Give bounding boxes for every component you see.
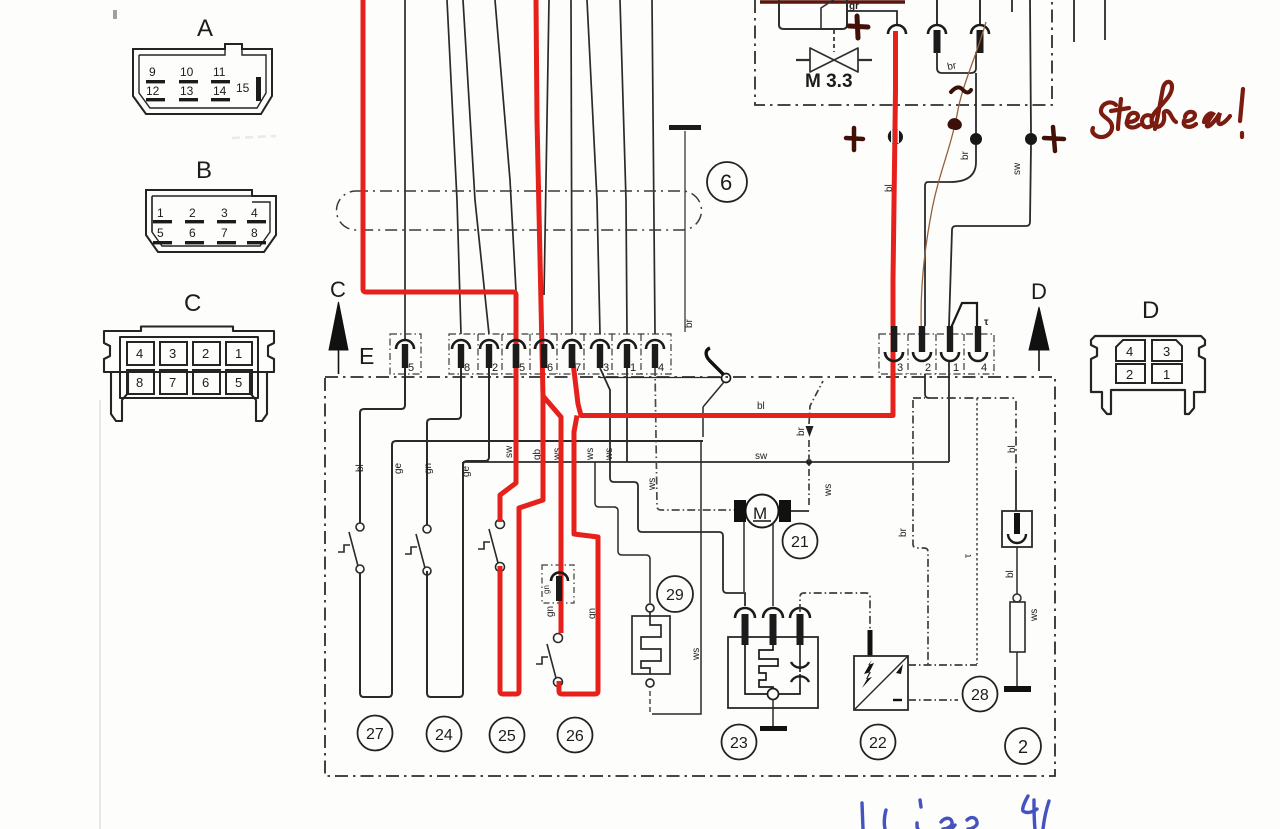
svg-text:br: br bbox=[898, 527, 909, 537]
component 26 dash box bbox=[542, 565, 574, 603]
junction dot br bbox=[970, 133, 982, 145]
svg-text:B: B bbox=[196, 157, 212, 184]
hand cross mark + (left of red dot) bbox=[846, 128, 863, 150]
svg-text:25: 25 bbox=[498, 728, 516, 745]
svg-text:26: 26 bbox=[566, 728, 584, 745]
svg-text:13: 13 bbox=[180, 84, 194, 98]
svg-text:5: 5 bbox=[157, 226, 164, 240]
pin D3 bbox=[885, 352, 903, 361]
svg-text:5: 5 bbox=[519, 362, 525, 374]
arrow C (to connector C) bbox=[329, 277, 348, 374]
svg-text:2: 2 bbox=[492, 362, 498, 374]
wire gr from relay to connector bbox=[847, 11, 897, 25]
dash-dot net NE of unit 22 bbox=[908, 398, 977, 700]
wire joining red at pin E5 column bbox=[495, 0, 516, 291]
wire sw from junction down-left to pin 1 of D-row bbox=[949, 145, 1031, 326]
switch 26 bbox=[536, 634, 563, 687]
hand cross mark + (right of sw dot) bbox=[1044, 127, 1064, 151]
svg-text:14: 14 bbox=[213, 84, 227, 98]
handwriting Stecker! bbox=[1092, 82, 1243, 137]
svg-text:gr: gr bbox=[849, 1, 859, 12]
numbered circles bbox=[358, 524, 1042, 765]
svg-text:ge: ge bbox=[393, 462, 404, 474]
svg-text:bl: bl bbox=[1005, 570, 1016, 578]
relay M3.3 bbox=[779, 0, 847, 29]
arrow on riser bbox=[806, 426, 814, 437]
svg-text:2: 2 bbox=[1018, 737, 1028, 757]
svg-text:5: 5 bbox=[235, 375, 242, 390]
svg-text:1: 1 bbox=[1163, 367, 1170, 382]
svg-text:3: 3 bbox=[1163, 344, 1170, 359]
svg-text:22: 22 bbox=[869, 735, 887, 752]
svg-text:6: 6 bbox=[189, 226, 196, 240]
svg-text:ws: ws bbox=[585, 448, 596, 461]
pin D4 bbox=[969, 352, 987, 361]
svg-text:2: 2 bbox=[1126, 367, 1133, 382]
pin D2 bbox=[913, 352, 931, 361]
svg-text:sw: sw bbox=[1012, 162, 1023, 175]
wire ws from pin E3 to unit 23 bbox=[600, 368, 745, 606]
svg-text:8: 8 bbox=[464, 362, 470, 374]
pin E7 bbox=[563, 340, 581, 349]
wire joining red at pin E6 column bbox=[544, 0, 549, 295]
svg-text:2: 2 bbox=[189, 206, 196, 220]
wire from motor left to unit 23 left pin bbox=[743, 522, 745, 592]
svg-text:1: 1 bbox=[157, 206, 164, 220]
svg-text:bl: bl bbox=[355, 464, 366, 472]
svg-text:10: 10 bbox=[180, 65, 194, 79]
arrow D (to connector D) bbox=[1029, 279, 1049, 371]
connector (red wire) below relay bbox=[888, 25, 906, 34]
unit 23 ground bbox=[772, 699, 774, 727]
pin E1 bbox=[618, 340, 636, 349]
switch 27 bbox=[338, 523, 364, 573]
right assembly connector box bbox=[1002, 511, 1032, 547]
svg-text:τ: τ bbox=[984, 317, 989, 328]
svg-text:τ: τ bbox=[963, 554, 974, 558]
pin E2 bbox=[480, 340, 498, 349]
svg-text:24: 24 bbox=[435, 727, 453, 744]
wire from toggle down to ws vertical bbox=[652, 407, 703, 714]
top right wire stubs bbox=[1012, 0, 1105, 42]
svg-text:bl: bl bbox=[1007, 445, 1018, 453]
svg-text:M: M bbox=[753, 504, 767, 523]
C pin 3 bbox=[160, 342, 187, 365]
E-row group dash box bbox=[449, 334, 671, 374]
wire bl circuit 27 left leg bbox=[360, 368, 703, 697]
C pin 1 bbox=[226, 342, 252, 365]
svg-text:3: 3 bbox=[169, 346, 176, 361]
ring junction redrawn on red wire bbox=[888, 127, 902, 146]
dashed riser ws to toggle contact bbox=[809, 381, 823, 505]
jumper pin1-pin4 bbox=[950, 303, 977, 330]
switch 25 bbox=[478, 520, 505, 572]
pin D1 bbox=[941, 352, 959, 361]
C pin 7 bbox=[160, 370, 187, 394]
M3.3 assembly dash-dot box bbox=[755, 0, 1052, 105]
antenna stub with T terminal bbox=[669, 125, 701, 332]
svg-text:ws: ws bbox=[823, 484, 834, 497]
wire from pin D2 to right assembly bbox=[925, 374, 929, 398]
wire br down to junction bbox=[975, 73, 977, 139]
black pin bars and arcs redrawn over red bbox=[513, 326, 897, 368]
wire to resistor 29 bbox=[595, 462, 650, 603]
motor 21 bbox=[734, 495, 791, 528]
svg-text:br: br bbox=[796, 426, 807, 436]
svg-text:A: A bbox=[197, 15, 213, 42]
svg-text:ws: ws bbox=[691, 648, 702, 661]
svg-text:7: 7 bbox=[169, 375, 176, 390]
unit 22 box (voltage transformer) bbox=[854, 656, 908, 710]
component 26 contact symbol bbox=[551, 573, 568, 602]
toggle switch lever (wiper) bbox=[703, 348, 731, 407]
svg-text:8: 8 bbox=[136, 375, 143, 390]
svg-text:gn: gn bbox=[423, 463, 434, 474]
svg-text:C: C bbox=[184, 290, 201, 317]
connector B bbox=[146, 190, 276, 252]
svg-text:4: 4 bbox=[251, 206, 258, 220]
svg-text:15: 15 bbox=[236, 81, 250, 95]
svg-text:8: 8 bbox=[251, 226, 258, 240]
dotted wire tt bbox=[976, 398, 978, 664]
unit 22 pin bar bbox=[868, 630, 873, 656]
handwriting blue bottom bbox=[862, 796, 1049, 829]
connector pair in M3.3 box bbox=[928, 0, 989, 53]
C pin 2 bbox=[193, 342, 220, 365]
junction dot sw bbox=[1025, 133, 1037, 145]
connector C housing bbox=[104, 327, 274, 422]
unit 23 box bbox=[728, 637, 818, 708]
svg-text:3: 3 bbox=[897, 362, 903, 374]
C pin 5 bbox=[226, 370, 252, 394]
hand cross mark + (top) bbox=[849, 16, 868, 38]
wire br from junction to pin 2 of D-row bbox=[925, 145, 976, 326]
svg-text:3: 3 bbox=[221, 206, 228, 220]
svg-text:D: D bbox=[1142, 297, 1159, 324]
svg-text:ws: ws bbox=[647, 478, 658, 491]
node 6 circle bbox=[707, 162, 747, 202]
svg-text:4: 4 bbox=[658, 362, 664, 374]
svg-text:9: 9 bbox=[149, 65, 156, 79]
fuse resistor element bbox=[1010, 602, 1025, 652]
svg-text:6: 6 bbox=[547, 362, 553, 374]
hand-drawn pencil wire bbox=[921, 22, 986, 344]
svg-text:E: E bbox=[359, 343, 374, 369]
svg-text:ws: ws bbox=[1029, 609, 1040, 622]
svg-text:4: 4 bbox=[1126, 344, 1133, 359]
wire to fuse resistor bbox=[1016, 547, 1018, 594]
resistor 29 bbox=[632, 604, 670, 687]
D pin 4 bbox=[1116, 340, 1145, 361]
svg-text:ws: ws bbox=[604, 448, 615, 461]
wire from motor to unit 23 middle pin bbox=[772, 523, 774, 606]
harness field (dash-dot stadium) bbox=[337, 191, 702, 230]
svg-text:1: 1 bbox=[630, 362, 636, 374]
red wire bl from M3.3 to pin E7 and unit 26 bbox=[572, 31, 896, 416]
pin E5b bbox=[507, 340, 525, 349]
red jumper wire circuit 25 loop bbox=[363, 0, 896, 694]
unit 23 pins bbox=[735, 608, 810, 645]
svg-text:4: 4 bbox=[136, 346, 143, 361]
svg-text:3: 3 bbox=[603, 362, 609, 374]
hand squiggle 2 bbox=[949, 119, 961, 128]
D pin 2 bbox=[1116, 364, 1145, 383]
wire to pin E5 bbox=[404, 0, 406, 339]
dash link to resistor 29 bottom bbox=[649, 690, 651, 712]
svg-text:23: 23 bbox=[730, 735, 748, 752]
C pin 4 bbox=[127, 342, 154, 365]
svg-text:D: D bbox=[1031, 279, 1047, 304]
svg-text:21: 21 bbox=[791, 534, 809, 551]
wire sw horizontal (to pin D1) bbox=[463, 361, 949, 462]
svg-text:2: 2 bbox=[925, 362, 931, 374]
svg-text:6: 6 bbox=[720, 170, 732, 195]
svg-text:4: 4 bbox=[981, 362, 987, 374]
E-row connector pins bbox=[396, 340, 664, 368]
E-row pin box 5 bbox=[390, 334, 421, 374]
svg-text:27: 27 bbox=[366, 726, 384, 743]
svg-text:11: 11 bbox=[213, 65, 226, 79]
valve symbol M3.3 bbox=[796, 30, 872, 72]
svg-text:12: 12 bbox=[146, 84, 160, 98]
svg-text:1: 1 bbox=[953, 362, 959, 374]
svg-text:28: 28 bbox=[971, 687, 989, 704]
ground right bbox=[1004, 686, 1031, 692]
C pin 6 bbox=[193, 370, 220, 394]
wire to pin E7 bbox=[571, 0, 572, 334]
C pin 8 bbox=[127, 370, 154, 394]
svg-text:6: 6 bbox=[202, 375, 209, 390]
unit 23 sender meander bbox=[745, 645, 800, 700]
wire sw top bbox=[1030, 0, 1031, 133]
D pin 1 bbox=[1152, 364, 1182, 383]
pin E8 bbox=[452, 340, 470, 349]
D pin 3 bbox=[1152, 340, 1182, 361]
unit 23 capacitor arcs bbox=[791, 645, 809, 683]
svg-text:gn: gn bbox=[542, 585, 551, 594]
relay top cut line bbox=[760, 0, 905, 4]
svg-text:M 3.3: M 3.3 bbox=[805, 71, 853, 92]
wire br U-link bbox=[937, 52, 976, 73]
svg-text:1: 1 bbox=[235, 346, 242, 361]
wire to pin E1 bbox=[620, 0, 627, 334]
svg-text:29: 29 bbox=[666, 587, 684, 604]
wire ge circuit 24 right leg from pin E2 bbox=[463, 368, 489, 465]
wire to pin E2 bbox=[463, 0, 489, 334]
svg-text:br: br bbox=[960, 150, 971, 160]
wire to pin E3 bbox=[587, 0, 600, 334]
control unit dash-dot boundary box bbox=[325, 377, 1055, 776]
svg-text:7: 7 bbox=[221, 226, 228, 240]
red branch to unit 26 bbox=[543, 396, 561, 633]
wire to pin E8 bbox=[447, 0, 461, 334]
D-row group dash box (right) bbox=[879, 334, 994, 374]
D-row pins (inverted) bbox=[885, 326, 987, 361]
pin E4 bbox=[646, 340, 664, 349]
pin E3 bbox=[591, 340, 609, 349]
pin E5 bbox=[396, 340, 414, 349]
svg-text:5: 5 bbox=[408, 362, 414, 374]
junction blob on sw wire bbox=[806, 459, 812, 465]
wire ws dashed from pin E4 to motor bbox=[655, 368, 735, 510]
wire motor right to dashed riser bbox=[791, 510, 809, 512]
svg-text:ge: ge bbox=[461, 465, 472, 477]
wire labels left circuits bbox=[355, 184, 1040, 661]
wire to ground right bbox=[1016, 652, 1018, 687]
svg-text:2: 2 bbox=[202, 346, 209, 361]
switch 24 bbox=[405, 525, 431, 575]
svg-text:br: br bbox=[684, 318, 695, 328]
unit 26 contact symbol over red bbox=[551, 573, 568, 602]
svg-text:sw: sw bbox=[755, 451, 768, 462]
wire gn circuit 24 left leg bbox=[427, 368, 463, 697]
dash link from 23 right pin to unit 22 bbox=[800, 593, 870, 632]
connector D housing (right) bbox=[1091, 336, 1205, 414]
svg-text:sw: sw bbox=[504, 445, 515, 458]
ring junction on red wire bbox=[889, 130, 903, 144]
svg-text:C: C bbox=[330, 277, 346, 302]
wire to pin E4 bbox=[652, 0, 655, 334]
connector A bbox=[133, 44, 272, 114]
svg-text:bl: bl bbox=[757, 401, 765, 412]
wire from pin E1 to sw wire bbox=[626, 368, 628, 462]
thin contact line to toggle bbox=[600, 377, 721, 379]
svg-text:gn: gn bbox=[545, 606, 556, 617]
pin E6 bbox=[535, 340, 553, 349]
hand squiggle 1 bbox=[951, 87, 971, 92]
